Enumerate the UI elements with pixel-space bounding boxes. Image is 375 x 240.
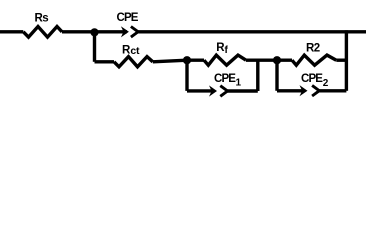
wire: row 2 from Rct to node B	[153, 60, 187, 62]
wire: row 2 from node B to Rf	[187, 59, 204, 62]
wire: CPE2 branch left	[277, 89, 304, 92]
wire: right vertical joining rows	[345, 30, 348, 91]
wire: CPE2 branch right	[319, 89, 346, 92]
CPE1 symbol arrowhead	[209, 85, 217, 96]
node A junction dot	[90, 28, 98, 36]
wire: vertical from node A down to row 2	[93, 32, 96, 62]
resistor Rct	[114, 57, 153, 67]
CPE symbol arrowhead	[121, 26, 129, 37]
resistor Rf	[204, 55, 246, 65]
svg-text:Rct: Rct	[122, 45, 140, 57]
CPE2 symbol arrowhead	[300, 85, 308, 96]
wire: CPE1 branch right	[228, 89, 258, 92]
node C junction dot	[273, 56, 281, 64]
CPE symbol chevron	[131, 27, 138, 38]
wire: row 2 from Rf to R2 (through node C)	[246, 59, 292, 62]
wire: top rail from CPE to right end	[138, 30, 366, 33]
resistor Rs	[23, 27, 62, 38]
wire: top rail from Rs to CPE	[62, 30, 127, 33]
svg-text:R2: R2	[306, 42, 320, 54]
wire: CPE1 branch left	[187, 89, 214, 92]
svg-text:Rs: Rs	[35, 13, 49, 25]
wire: top rail left segment	[0, 30, 23, 33]
svg-text:Rf: Rf	[216, 42, 228, 56]
resistor R2	[292, 55, 336, 65]
svg-text:CPE1: CPE1	[214, 73, 242, 88]
node B junction dot	[183, 56, 191, 64]
CPE1 symbol chevron	[220, 86, 227, 97]
wire: vertical from CPE1 branch up to row 2	[256, 60, 259, 91]
CPE2 symbol chevron	[312, 85, 319, 96]
wire: vertical from node C down to CPE2 branch	[275, 60, 278, 91]
wire: row 2 from R2 to right vertical	[336, 59, 346, 62]
wire: row 2 left segment	[95, 60, 115, 63]
wire: vertical from node B down to CPE1 branch	[185, 60, 188, 91]
svg-text:CPE: CPE	[117, 12, 139, 24]
